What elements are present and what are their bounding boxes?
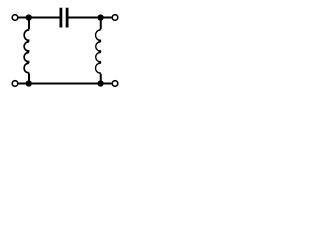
wire: top-right segment (capacitor to terminal) [68,17,111,19]
inductor L2 (right shunt coil) [96,18,102,84]
terminal: bottom-right open circle [112,81,118,87]
terminal: top-left open circle [12,15,18,21]
wire: bottom segment [18,83,112,85]
inductor L1 (left shunt coil) [24,18,29,84]
node: top-left junction dot [26,14,32,20]
node: bottom-left junction dot [26,80,32,86]
node: top-right junction dot [97,14,103,20]
wire: top-left segment (terminal to capacitor) [18,17,59,19]
terminal: bottom-left open circle [12,81,18,87]
terminal: top-right open circle [112,15,118,21]
node: bottom-right junction dot [97,80,103,86]
capacitor C1 (series, top) [60,8,69,28]
